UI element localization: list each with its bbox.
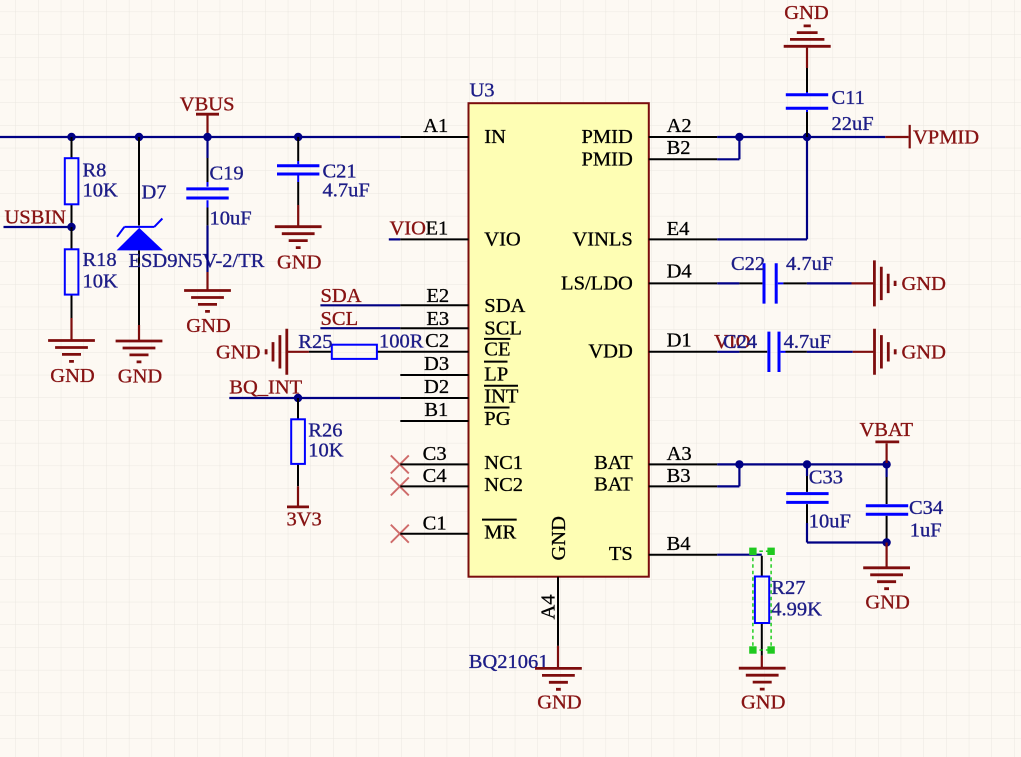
svg-text:PG: PG [484, 408, 510, 430]
capacitor C19 [186, 137, 251, 230]
svg-text:D4: D4 [667, 260, 692, 282]
svg-text:NC1: NC1 [484, 452, 523, 474]
ground at C11 (top) [784, 2, 831, 68]
svg-text:PMID: PMID [582, 149, 633, 171]
capacitor C33 10uF [786, 464, 851, 532]
svg-text:GND: GND [865, 592, 909, 614]
junction at C11/PMID [803, 133, 811, 141]
no-ERC cross at NC1 [391, 455, 409, 473]
svg-text:E4: E4 [667, 218, 690, 240]
svg-text:MR: MR [484, 521, 516, 543]
ground at D7 [116, 325, 163, 388]
ground at C34 [863, 543, 910, 614]
port VPMID [885, 125, 979, 149]
svg-text:100R: 100R [379, 331, 424, 353]
svg-text:LS/LDO: LS/LDO [561, 272, 633, 294]
svg-text:GND: GND [277, 251, 321, 273]
svg-text:E2: E2 [426, 285, 449, 307]
svg-text:B2: B2 [667, 137, 691, 159]
svg-text:E1: E1 [426, 218, 449, 240]
no-ERC cross at MR [391, 525, 409, 543]
pin E3 SCL [400, 308, 522, 340]
wire BAT to VBAT [717, 463, 886, 465]
junction at B2/PMID [735, 133, 743, 141]
svg-text:C3: C3 [423, 443, 447, 465]
svg-text:A4: A4 [538, 594, 560, 619]
wire VBUS bus [0, 136, 400, 138]
junction at R26/INT [294, 394, 302, 402]
svg-text:1uF: 1uF [910, 519, 942, 541]
pin D4 LS/LDO [561, 260, 717, 294]
wire C22 to ground [783, 282, 807, 284]
svg-text:U3: U3 [470, 79, 495, 101]
svg-text:A1: A1 [423, 115, 448, 137]
ground at C19 [184, 272, 231, 337]
svg-text:USBIN: USBIN [5, 207, 67, 229]
svg-text:GND: GND [216, 341, 260, 363]
wire SDA [320, 304, 400, 306]
svg-text:IN: IN [484, 126, 506, 148]
svg-text:ESD9N5V-2/TR: ESD9N5V-2/TR [129, 250, 265, 272]
svg-text:4.99K: 4.99K [771, 599, 822, 621]
ground at R25 (sideways) [216, 329, 309, 375]
svg-text:C4: C4 [423, 465, 447, 487]
svg-text:VBAT: VBAT [860, 419, 914, 441]
pin E4 VINLS [572, 218, 717, 251]
svg-text:CE: CE [484, 338, 510, 360]
junction at B3/BAT [735, 460, 743, 468]
capacitor C22 4.7uF [731, 253, 833, 303]
svg-text:3V3: 3V3 [287, 509, 322, 531]
wire E4 to PMID junction [717, 137, 807, 239]
ground at C22 (sideways) [852, 260, 946, 306]
svg-text:D3: D3 [424, 353, 449, 375]
resistor R25 100R [298, 331, 423, 359]
wire D4 to C22 [717, 282, 739, 284]
svg-text:GND: GND [548, 516, 570, 560]
ground at C21 [275, 205, 322, 273]
svg-text:GND: GND [537, 691, 581, 713]
ground at R18 [48, 318, 95, 387]
svg-text:R18: R18 [83, 249, 117, 271]
pin B1 PG (active low) [400, 399, 510, 430]
svg-text:VIO: VIO [484, 228, 520, 250]
pin A2 PMID [582, 115, 718, 148]
svg-text:4.7uF: 4.7uF [323, 180, 370, 202]
svg-text:D2: D2 [424, 376, 449, 398]
svg-text:LP: LP [484, 363, 508, 385]
svg-text:SCL: SCL [484, 317, 522, 339]
svg-text:D1: D1 [667, 330, 692, 352]
svg-text:INT: INT [484, 386, 519, 408]
pin C3 NC1 [400, 443, 523, 474]
wire C24 to ground [786, 351, 807, 353]
svg-text:GND: GND [784, 2, 828, 24]
capacitor C21 [277, 137, 370, 205]
svg-text:SDA: SDA [484, 295, 525, 317]
svg-text:GND: GND [118, 366, 162, 388]
svg-text:VIO: VIO [390, 218, 426, 240]
junction at C34/BAT [882, 460, 890, 468]
wire D1 to C24 (net VIO) [717, 351, 739, 353]
svg-text:C2: C2 [425, 330, 449, 352]
svg-text:C33: C33 [809, 467, 843, 489]
wire USBIN [4, 226, 72, 228]
pin C4 NC2 [400, 465, 523, 496]
svg-text:C24: C24 [723, 331, 757, 353]
pin A4 GND (bottom) [538, 516, 570, 646]
ground at C24 (sideways) [853, 329, 946, 375]
svg-text:GND: GND [741, 692, 785, 714]
capacitor C24 4.7uF [723, 331, 831, 372]
svg-text:TS: TS [609, 543, 633, 565]
svg-text:D7: D7 [142, 182, 167, 204]
svg-text:R27: R27 [771, 577, 805, 599]
svg-text:A3: A3 [667, 443, 692, 465]
pin B3 BAT [594, 465, 717, 496]
svg-text:C22: C22 [731, 253, 765, 275]
svg-text:B3: B3 [667, 465, 691, 487]
power port 3V3 [287, 486, 322, 530]
svg-text:10K: 10K [83, 270, 119, 292]
no-ERC cross at NC2 [391, 477, 409, 495]
svg-text:B1: B1 [424, 399, 448, 421]
pin D2 INT (active low) [400, 376, 519, 407]
wire VIO stub [389, 238, 401, 240]
junction at R8/bus [67, 133, 75, 141]
svg-text:C34: C34 [909, 497, 943, 519]
wire B2 to PMID [717, 137, 739, 159]
svg-text:NC2: NC2 [484, 474, 523, 496]
wire B3 to BAT [717, 464, 739, 486]
pin A3 BAT [594, 443, 717, 474]
svg-text:SCL: SCL [321, 308, 359, 330]
wire PMID to VPMID [717, 136, 885, 138]
svg-text:4.7uF: 4.7uF [784, 331, 831, 353]
junction at R8/R18 [67, 223, 75, 231]
svg-text:GND: GND [50, 365, 94, 387]
svg-text:10K: 10K [83, 180, 119, 202]
power port VBUS bar [196, 113, 219, 116]
ground at A4 (chip GND) [535, 646, 582, 714]
ground at R27 [739, 656, 786, 714]
wire SCL [320, 327, 400, 329]
junction at C33/BAT [803, 460, 811, 468]
op-amp U3 body BQ21061 [469, 103, 649, 577]
power port VBAT [860, 419, 914, 463]
pin D1 VDD [588, 330, 717, 363]
junction at C34/GND [882, 538, 890, 546]
pin C1 MR (active low) [400, 512, 516, 543]
resistor R18 [65, 227, 118, 318]
svg-text:E3: E3 [426, 308, 449, 330]
junction at D7/bus [135, 133, 143, 141]
svg-text:10uF: 10uF [809, 511, 851, 533]
svg-text:SDA: SDA [321, 285, 362, 307]
pin E1 VIO [400, 218, 520, 251]
svg-text:10K: 10K [308, 439, 344, 461]
pin B2 PMID [582, 137, 718, 170]
resistor R8 [65, 137, 118, 227]
svg-text:C1: C1 [423, 512, 447, 534]
svg-text:A2: A2 [667, 115, 692, 137]
wire C19 to ground [206, 225, 208, 272]
svg-text:B4: B4 [667, 533, 691, 555]
svg-text:PMID: PMID [582, 126, 633, 148]
junction at C21/bus [294, 133, 302, 141]
svg-text:22uF: 22uF [832, 113, 874, 135]
pin E2 SDA [400, 285, 525, 317]
svg-text:BAT: BAT [594, 452, 633, 474]
svg-text:BAT: BAT [594, 474, 633, 496]
wire C33 to C34 bottom [807, 523, 887, 543]
resistor R26 [291, 398, 344, 486]
resistor R27 4.99K [755, 556, 822, 656]
pin C2 CE (active low) [400, 330, 510, 360]
svg-text:BQ_INT: BQ_INT [229, 376, 302, 398]
pin B4 TS [609, 533, 717, 565]
pin D3 LP (active low) [400, 353, 508, 385]
svg-text:10uF: 10uF [210, 208, 252, 230]
pin A1 IN [400, 115, 506, 148]
svg-text:VPMID: VPMID [913, 127, 979, 149]
junction at C19/bus [203, 133, 211, 141]
svg-text:VBUS: VBUS [180, 94, 235, 116]
svg-text:GND: GND [902, 273, 946, 295]
svg-text:C19: C19 [210, 163, 244, 185]
wire BQ_INT [229, 397, 400, 399]
capacitor C11 22uF [786, 68, 874, 137]
capacitor C34 1uF [866, 464, 943, 542]
diode D7 ESD9N5V-2/TR [117, 137, 265, 325]
svg-text:VDD: VDD [588, 341, 632, 363]
selection box R27 [749, 548, 775, 654]
svg-text:R25: R25 [298, 331, 332, 353]
wire TS to R27 [717, 554, 762, 556]
svg-text:4.7uF: 4.7uF [786, 253, 833, 275]
svg-text:GND: GND [186, 315, 230, 337]
svg-text:GND: GND [902, 341, 946, 363]
svg-text:R26: R26 [308, 420, 342, 442]
svg-text:R8: R8 [83, 160, 107, 182]
svg-text:VINLS: VINLS [572, 229, 632, 251]
svg-text:C11: C11 [832, 87, 865, 109]
